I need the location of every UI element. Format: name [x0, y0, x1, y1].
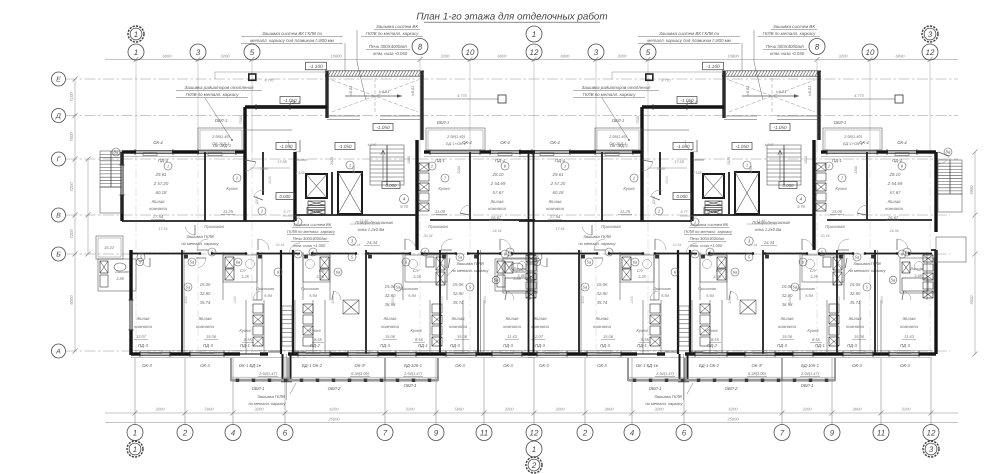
svg-text:3200: 3200 [655, 407, 665, 412]
svg-text:32.80: 32.80 [200, 291, 211, 296]
svg-text:2 57.20: 2 57.20 [153, 181, 169, 186]
porch floor edge [327, 115, 360, 117]
risers [184, 255, 187, 258]
svg-text:ПД-3: ПД-3 [380, 343, 390, 348]
svg-text:1: 1 [297, 219, 299, 224]
svg-text:16.22: 16.22 [104, 245, 115, 250]
svg-text:В: В [56, 213, 61, 220]
svg-text:5000: 5000 [455, 407, 465, 412]
svg-text:8.55: 8.55 [244, 337, 253, 342]
svg-text:комната: комната [381, 324, 399, 329]
svg-text:6000: 6000 [561, 54, 571, 59]
svg-text:5000: 5000 [205, 407, 215, 412]
svg-text:1: 1 [532, 445, 536, 454]
svg-text:17.68: 17.68 [277, 160, 287, 164]
top axis circles [128, 26, 144, 42]
svg-text:комната: комната [488, 206, 506, 211]
svg-text:ПД-2: ПД-2 [310, 343, 320, 348]
svg-text:5.94: 5.94 [264, 293, 272, 298]
top balcony 2 [426, 128, 485, 150]
svg-text:5а: 5а [494, 278, 499, 283]
svg-text:15.06: 15.06 [206, 334, 217, 339]
svg-text:3200: 3200 [839, 54, 849, 59]
svg-text:11.46: 11.46 [360, 219, 369, 223]
svg-text:10: 10 [866, 48, 875, 57]
svg-text:ПД-1: ПД-1 [418, 343, 428, 348]
radiator ticks bottom windows [148, 351, 162, 354]
main top wall with window openings [122, 150, 135, 153]
svg-text:3000: 3000 [853, 407, 863, 412]
svg-text:12: 12 [926, 48, 935, 57]
svg-text:ОК-3: ОК-3 [142, 363, 152, 368]
axis line B [66, 253, 950, 255]
svg-text:ГКЛВ по металл. каркасу: ГКЛВ по металл. каркасу [186, 92, 240, 97]
svg-text:6000: 6000 [69, 295, 74, 305]
svg-text:Прихожая: Прихожая [204, 224, 224, 229]
porch top wall (hatched) [325, 70, 424, 72]
svg-text:Ванная: Ванная [115, 269, 128, 274]
svg-text:17.54: 17.54 [159, 227, 168, 231]
svg-text:4.770: 4.770 [457, 94, 467, 98]
party double wall [480, 250, 482, 354]
svg-text:3200: 3200 [391, 296, 395, 304]
svg-text:9: 9 [830, 428, 835, 437]
bottom axis circles [127, 425, 143, 441]
svg-text:1: 1 [134, 30, 138, 39]
bottom balconies [230, 358, 232, 381]
svg-text:Печи 300Х4000/мп: Печи 300Х4000/мп [293, 236, 328, 241]
svg-text:1: 1 [133, 428, 137, 437]
svg-text:7500: 7500 [69, 132, 74, 142]
porch elevation label [306, 62, 327, 70]
svg-text:57.67: 57.67 [493, 190, 505, 195]
svg-text:12: 12 [530, 48, 539, 57]
svg-text:15.06: 15.06 [453, 282, 464, 287]
svg-text:комната: комната [449, 324, 467, 329]
bathroom cluster C [303, 255, 330, 282]
bathroom cluster A (left end) [98, 259, 136, 291]
svg-text:С/У: С/У [413, 268, 420, 273]
svg-text:10600: 10600 [330, 54, 342, 59]
svg-text:2500: 2500 [259, 167, 268, 171]
svg-text:32.80: 32.80 [453, 291, 464, 296]
svg-text:С/У: С/У [240, 268, 247, 273]
svg-text:12: 12 [927, 428, 936, 437]
svg-text:11: 11 [877, 428, 885, 437]
svg-text:10600: 10600 [727, 54, 739, 59]
lower band outer left wall [129, 250, 132, 300]
wall returns at corridor doorways [199, 252, 201, 254]
svg-text:Кухня: Кухня [309, 328, 321, 333]
window in upper block [256, 105, 290, 107]
svg-text:4.045: 4.045 [368, 143, 377, 147]
svg-text:4: 4 [630, 428, 635, 437]
svg-text:ОК-4: ОК-4 [500, 140, 510, 145]
door arc upper block [288, 140, 300, 152]
svg-text:6а: 6а [336, 269, 341, 274]
right protrusion box [936, 237, 966, 262]
svg-text:по металл. каркасу: по металл. каркасу [248, 401, 286, 406]
svg-text:8.55: 8.55 [314, 337, 323, 342]
svg-text:5: 5 [250, 48, 255, 57]
svg-text:1: 1 [134, 48, 138, 57]
svg-text:комната: комната [149, 206, 167, 211]
svg-text:24.34: 24.34 [366, 240, 378, 245]
svg-text:8: 8 [815, 42, 820, 51]
svg-text:по металл. каркасу: по металл. каркасу [181, 241, 219, 246]
room markers [137, 253, 145, 261]
axis letter circles [52, 72, 66, 86]
svg-text:1: 1 [349, 162, 351, 167]
svg-text:8.55: 8.55 [415, 337, 424, 342]
svg-text:комната: комната [134, 324, 152, 329]
svg-text:План 1-го этажа для отделочных: План 1-го этажа для отделочных работ [416, 12, 607, 23]
left protrusion box [96, 236, 123, 259]
svg-text:Жилая: Жилая [150, 199, 165, 204]
svg-text:3200: 3200 [406, 407, 416, 412]
svg-text:Печи 300Х4000/мп: Печи 300Х4000/мп [369, 44, 408, 49]
vent shafts column [419, 163, 429, 171]
svg-text:ПД-3: ПД-3 [203, 343, 213, 348]
svg-text:4: 4 [231, 428, 236, 437]
svg-text:16.67: 16.67 [491, 215, 502, 220]
svg-text:2.94(1.47): 2.94(1.47) [258, 371, 277, 376]
svg-text:6: 6 [682, 428, 687, 437]
svg-text:3200: 3200 [331, 296, 335, 304]
bathroom cluster B [223, 255, 257, 282]
vent shaft at party wall [526, 255, 536, 262]
svg-text:3.25: 3.25 [316, 274, 324, 279]
svg-text:15.06: 15.06 [457, 334, 468, 339]
svg-text:15.06: 15.06 [200, 282, 211, 287]
svg-text:12.07: 12.07 [136, 334, 147, 339]
svg-text:3200: 3200 [352, 166, 356, 174]
hallway wall right of block [262, 152, 264, 195]
kitchen window sill marks [343, 300, 359, 314]
svg-text:6200: 6200 [729, 407, 739, 412]
core lobby [295, 214, 417, 216]
svg-text:отм. низа -0.050: отм. низа -0.050 [373, 51, 408, 56]
upper band partitions [204, 152, 206, 221]
svg-text:Прихожая: Прихожая [256, 286, 274, 291]
svg-text:3200: 3200 [902, 407, 912, 412]
lower band partitions [181, 250, 183, 354]
top windows [135, 150, 173, 152]
svg-text:Зашивка ГКЛВ: Зашивка ГКЛВ [257, 394, 285, 399]
svg-text:ОК-3*: ОК-3* [354, 363, 365, 368]
svg-text:Жилая: Жилая [504, 316, 519, 321]
svg-text:Жилая: Жилая [450, 316, 465, 321]
svg-text:2 54.69: 2 54.69 [490, 181, 506, 186]
svg-text:Зашивка систем ВК ГКЛВ по: Зашивка систем ВК ГКЛВ по [262, 31, 323, 36]
svg-text:5а: 5а [458, 254, 463, 259]
staircase [370, 145, 404, 185]
svg-text:7500: 7500 [239, 116, 243, 124]
svg-text:ОБЛ-2: ОБЛ-2 [328, 386, 341, 391]
svg-text:Жилая: Жилая [135, 316, 150, 321]
svg-text:8: 8 [418, 42, 423, 51]
svg-text:Кухня: Кухня [239, 328, 251, 333]
svg-text:ОК-3: ОК-3 [503, 363, 513, 368]
svg-text:Е: Е [56, 77, 61, 84]
svg-text:7.168: 7.168 [296, 171, 305, 175]
top balcony 1 [198, 128, 244, 150]
svg-text:5а: 5а [190, 259, 195, 264]
svg-text:2020: 2020 [268, 176, 272, 185]
svg-text:Кухня: Кухня [438, 186, 450, 191]
axis line D [66, 115, 958, 117]
svg-text:Жилая: Жилая [197, 316, 212, 321]
svg-text:-1.050: -1.050 [376, 125, 389, 130]
svg-text:i=0.01: i=0.01 [411, 86, 415, 96]
svg-text:1: 1 [133, 445, 137, 454]
svg-text:7200: 7200 [69, 229, 74, 239]
svg-text:А: А [55, 349, 61, 356]
bathroom cluster E (vannaya) [503, 258, 537, 293]
svg-text:9.70: 9.70 [400, 204, 408, 209]
svg-text:ПД-3: ПД-3 [503, 343, 513, 348]
axis line A [66, 350, 950, 352]
corridor doors [197, 239, 208, 250]
svg-text:3200: 3200 [156, 407, 166, 412]
interior face line of bottom wall [131, 350, 535, 352]
svg-text:Прихожая: Прихожая [400, 286, 418, 291]
svg-text:i=0.01: i=0.01 [349, 86, 353, 96]
stair core walls [293, 152, 296, 221]
svg-text:8а: 8а [946, 150, 951, 155]
svg-text:1: 1 [532, 30, 536, 39]
left external stair [100, 151, 122, 187]
svg-text:Зашивка систем ВК: Зашивка систем ВК [376, 24, 418, 29]
svg-text:15.06: 15.06 [385, 334, 396, 339]
porch slope arrow [345, 95, 402, 97]
svg-text:зона 1.2х0.8м: зона 1.2х0.8м [357, 227, 385, 232]
svg-text:ПД-3: ПД-3 [450, 343, 460, 348]
svg-text:5.94: 5.94 [408, 293, 416, 298]
svg-text:Б: Б [56, 252, 61, 259]
svg-text:ОК-3: ОК-3 [200, 363, 210, 368]
svg-text:11.43: 11.43 [507, 334, 517, 339]
balcony door units top [430, 150, 480, 152]
svg-text:3200: 3200 [255, 407, 265, 412]
svg-text:по металл. каркасу: по металл. каркасу [451, 268, 489, 273]
svg-text:Зашивка радиаторов отопления: Зашивка радиаторов отопления [185, 85, 255, 90]
svg-text:ОК-3: ОК-3 [455, 363, 465, 368]
svg-text:3200: 3200 [505, 407, 515, 412]
lower band top wall [131, 253, 200, 255]
misc interior door arcs upper band [185, 227, 195, 235]
svg-text:3: 3 [928, 30, 933, 39]
svg-text:3200: 3200 [483, 296, 487, 304]
svg-text:24.34: 24.34 [492, 229, 502, 233]
bottom dimension lines [105, 412, 958, 414]
svg-text:Зашивка ГКЛВ: Зашивка ГКЛВ [186, 234, 214, 239]
svg-text:1200: 1200 [233, 296, 237, 304]
top dimension line [105, 59, 958, 61]
svg-text:6а: 6а [236, 259, 241, 264]
svg-text:11: 11 [480, 428, 488, 437]
porch side walls [325, 71, 328, 118]
svg-text:3200: 3200 [221, 54, 231, 59]
svg-text:С/У: С/У [319, 268, 326, 273]
svg-text:10: 10 [466, 48, 475, 57]
right cap: end wall [934, 152, 937, 232]
lower band doors [198, 258, 206, 268]
svg-text:Кухня: Кухня [226, 186, 238, 191]
svg-text:7: 7 [780, 428, 785, 437]
svg-text:6000: 6000 [163, 54, 173, 59]
chimney squares [249, 74, 256, 80]
svg-text:ОБЛ-1: ОБЛ-1 [437, 120, 449, 125]
right vertical dim line [974, 152, 976, 354]
svg-text:24.34: 24.34 [351, 243, 361, 247]
bathroom cluster D [405, 255, 447, 282]
svg-text:отм. низа +1.000: отм. низа +1.000 [293, 243, 326, 248]
svg-text:3200: 3200 [441, 54, 451, 59]
axis line G [66, 158, 958, 160]
entrance stair strip [280, 250, 282, 354]
svg-text:-1.050: -1.050 [338, 144, 351, 149]
svg-text:2: 2 [582, 428, 588, 437]
svg-text:1000: 1000 [407, 156, 411, 164]
svg-text:0.000: 0.000 [280, 194, 292, 199]
svg-text:ОБЛ-1: ОБЛ-1 [215, 118, 227, 123]
svg-text:6000: 6000 [896, 54, 906, 59]
svg-text:3: 3 [594, 48, 599, 57]
svg-text:комната: комната [196, 324, 214, 329]
svg-text:25000: 25000 [726, 417, 739, 422]
svg-text:2020: 2020 [330, 157, 334, 166]
svg-text:ОК-4: ОК-4 [153, 140, 163, 145]
svg-text:5а: 5а [396, 284, 401, 289]
svg-text:3: 3 [929, 445, 934, 454]
svg-text:2: 2 [531, 461, 537, 470]
svg-text:Прихожая: Прихожая [301, 286, 319, 291]
svg-text:Кухня: Кухня [410, 328, 422, 333]
svg-text:6000: 6000 [498, 54, 508, 59]
svg-text:3000: 3000 [605, 407, 615, 412]
svg-text:1: 1 [167, 163, 169, 168]
svg-text:3.89: 3.89 [116, 276, 124, 281]
svg-text:6.77: 6.77 [284, 210, 292, 214]
svg-text:5.94: 5.94 [309, 293, 317, 298]
svg-text:7: 7 [383, 428, 388, 437]
svg-text:комната: комната [503, 324, 521, 329]
svg-text:БД-10К-1: БД-10К-1 [404, 363, 422, 368]
bd door marks behind balcony [268, 351, 281, 353]
svg-text:3200: 3200 [803, 407, 813, 412]
svg-text:i=0.01: i=0.01 [379, 90, 389, 94]
svg-text:3.25: 3.25 [241, 274, 249, 279]
svg-text:6000: 6000 [969, 295, 974, 305]
svg-text:6: 6 [283, 428, 288, 437]
svg-text:металл. каркасу под плавиком t: металл. каркасу под плавиком t=800 мм [250, 38, 334, 43]
svg-text:0.000: 0.000 [386, 183, 398, 188]
svg-text:6980: 6980 [969, 185, 974, 195]
svg-text:2: 2 [182, 428, 188, 437]
machine wall [331, 172, 333, 214]
svg-text:Жилая: Жилая [382, 316, 397, 321]
svg-text:29.61: 29.61 [155, 172, 168, 177]
right external stair [938, 160, 962, 194]
svg-text:12: 12 [530, 428, 539, 437]
svg-text:ПД-3: ПД-3 [138, 343, 148, 348]
svg-text:6200: 6200 [330, 407, 340, 412]
svg-text:2.98(1.49): 2.98(1.49) [446, 134, 465, 139]
interior face line of top wall [122, 156, 245, 158]
svg-text:ГКЛВ по металл. каркасу: ГКЛВ по металл. каркасу [366, 31, 420, 36]
svg-text:5а: 5а [186, 284, 191, 289]
svg-text:20.34: 20.34 [275, 243, 285, 247]
svg-text:Зашивка ГКЛВ: Зашивка ГКЛВ [456, 261, 484, 266]
svg-text:1500: 1500 [440, 296, 444, 304]
svg-text:Прихожая: Прихожая [428, 224, 448, 229]
svg-text:3200: 3200 [556, 407, 566, 412]
axis line E [66, 78, 958, 80]
left vertical dimension line [74, 79, 76, 351]
porch ramp dashed diagonals [332, 80, 418, 112]
svg-text:ОК-1 БД-1е: ОК-1 БД-1е [239, 363, 262, 368]
svg-text:7100: 7100 [69, 92, 74, 102]
svg-text:Жилая: Жилая [489, 199, 504, 204]
svg-text:3200: 3200 [457, 166, 461, 174]
svg-text:БД-1 ОК-2: БД-1 ОК-2 [302, 363, 323, 368]
left end wall [120, 152, 123, 165]
svg-text:20.34: 20.34 [423, 234, 433, 238]
svg-text:ПД-1: ПД-1 [435, 158, 445, 163]
svg-text:ГКЛВ по металл. каркасу: ГКЛВ по металл. каркасу [287, 229, 336, 234]
svg-text:25000: 25000 [327, 417, 340, 422]
kitchen fixtures [253, 304, 263, 313]
svg-text:4.770: 4.770 [265, 79, 274, 83]
svg-text:-1.100: -1.100 [309, 64, 323, 70]
svg-text:ОБЛ-1: ОБЛ-1 [404, 383, 417, 388]
svg-text:5: 5 [646, 48, 651, 57]
svg-text:8а: 8а [114, 150, 119, 155]
svg-text:-1.050: -1.050 [283, 98, 296, 103]
elevator shaft 2 [338, 172, 362, 214]
svg-text:ДУ-2: ДУ-2 [255, 196, 259, 205]
svg-text:11.00: 11.00 [435, 209, 446, 214]
svg-text:Д: Д [55, 113, 61, 120]
svg-text:2.98(1.49): 2.98(1.49) [211, 134, 230, 139]
top axis vertical lines [135, 60, 137, 152]
svg-text:3.25: 3.25 [413, 274, 421, 279]
svg-text:3200: 3200 [618, 54, 628, 59]
svg-text:28.10: 28.10 [492, 172, 505, 177]
elevator shaft 1 [306, 174, 327, 198]
svg-text:ПД-1: ПД-1 [240, 343, 250, 348]
svg-text:9: 9 [434, 428, 439, 437]
svg-text:35.74: 35.74 [200, 300, 211, 305]
svg-text:ОК-4: ОК-4 [462, 140, 472, 145]
bottom wall with windows [131, 352, 140, 355]
upper room block walls [245, 105, 327, 108]
svg-text:35.74: 35.74 [453, 300, 464, 305]
interior dim leader lines [250, 167, 290, 169]
svg-text:17.54: 17.54 [153, 214, 164, 219]
axis line V [66, 214, 950, 216]
svg-text:2.94(1.47): 2.94(1.47) [403, 371, 422, 376]
svg-text:7200: 7200 [69, 182, 74, 192]
svg-text:3: 3 [196, 48, 201, 57]
svg-text:11.25: 11.25 [223, 209, 234, 214]
svg-text:3200: 3200 [184, 296, 188, 304]
center party wall [528, 152, 530, 354]
svg-text:ОК-1БД-1: ОК-1БД-1 [213, 143, 231, 148]
svg-text:60.18: 60.18 [156, 190, 168, 195]
svg-text:6.38(3.09): 6.38(3.09) [351, 371, 369, 376]
